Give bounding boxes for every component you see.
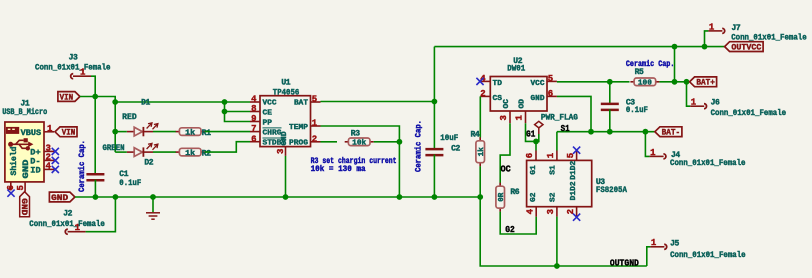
junction C3 top xyxy=(607,79,613,85)
svg-text:GND: GND xyxy=(281,131,289,145)
node G2 xyxy=(505,224,515,235)
note Ceramic Cap. (C2) xyxy=(414,120,423,172)
wire R4 to GND rail xyxy=(479,166,481,197)
wire U2 GND to S1 xyxy=(557,96,591,131)
wire J3 to VIN node xyxy=(91,76,95,96)
svg-text:Ceramic Cap.: Ceramic Cap. xyxy=(78,140,87,192)
svg-text:5: 5 xyxy=(312,95,317,105)
svg-text:10k = 130 ma: 10k = 130 ma xyxy=(311,165,366,174)
wire D1 anode xyxy=(115,131,127,133)
svg-text:VIN: VIN xyxy=(60,93,74,102)
wire U3 S2 down xyxy=(556,217,558,266)
svg-text:OC: OC xyxy=(503,99,511,109)
connector J7 Conn_01x01_Female xyxy=(708,22,806,42)
svg-text:Conn_01x01_Female: Conn_01x01_Female xyxy=(670,159,746,168)
junction C3 at S1 xyxy=(607,129,613,135)
capacitor C2 10uF xyxy=(425,134,460,155)
svg-text:J2: J2 xyxy=(63,210,72,219)
svg-text:1: 1 xyxy=(47,124,53,134)
svg-text:USB_B_Micro: USB_B_Micro xyxy=(2,108,47,117)
svg-text:8: 8 xyxy=(251,104,256,114)
junction C1 at rail xyxy=(93,194,99,200)
resistor R2 1k xyxy=(176,148,212,158)
wire U2 CS to R4 xyxy=(479,96,481,137)
svg-text:D1D2: D1D2 xyxy=(570,160,578,179)
svg-text:GND: GND xyxy=(531,95,545,103)
power label VIN (at J1 VBUS) xyxy=(55,127,77,138)
wire U1 BAT to C2 node xyxy=(321,101,435,103)
svg-text:Conn_01x01_Female: Conn_01x01_Female xyxy=(35,64,111,73)
svg-text:3: 3 xyxy=(276,149,286,154)
no-connect X on J1 pin D+ xyxy=(52,148,59,155)
wire GND rail xyxy=(75,196,480,198)
svg-text:S2: S2 xyxy=(550,192,558,202)
no-connect X on J1 pin D- xyxy=(52,157,59,164)
svg-text:R3: R3 xyxy=(351,130,360,139)
svg-text:6: 6 xyxy=(251,134,256,144)
wire S1 to U3 pin1 xyxy=(556,132,558,151)
wire BAT+ node to J6 xyxy=(687,82,691,106)
svg-text:1k: 1k xyxy=(185,150,195,158)
svg-text:BAT+: BAT+ xyxy=(696,79,715,88)
junction top rail at J7 xyxy=(702,44,708,50)
svg-text:1k: 1k xyxy=(478,147,486,157)
junction R4 at rail xyxy=(477,194,483,200)
svg-text:10uF: 10uF xyxy=(440,134,458,143)
junction OUTVCC riser xyxy=(672,79,678,85)
svg-text:J7: J7 xyxy=(732,24,741,33)
resistor R4 1k xyxy=(471,130,486,166)
wire VCC to C3 xyxy=(609,82,611,105)
junction TEMP/PROG xyxy=(397,139,403,145)
wire to J5 xyxy=(647,247,651,266)
power label BAT- xyxy=(655,127,682,138)
LED D2 (GREEN) xyxy=(103,143,158,167)
wire OUTGND rail xyxy=(480,197,647,266)
svg-text:2: 2 xyxy=(480,89,485,99)
svg-text:4: 4 xyxy=(525,208,535,214)
svg-text:G1: G1 xyxy=(530,165,538,175)
svg-text:4: 4 xyxy=(46,162,52,172)
wire D2 cathode to R2 xyxy=(153,151,176,153)
svg-text:2: 2 xyxy=(566,209,576,214)
svg-text:OC: OC xyxy=(501,164,512,175)
svg-text:4: 4 xyxy=(251,95,257,105)
wire riser to top rail xyxy=(674,47,676,82)
svg-text:J3: J3 xyxy=(69,54,78,63)
wire G1 to U3 pin6 xyxy=(535,141,537,150)
resistor R6 0R xyxy=(496,183,520,212)
svg-text:R2: R2 xyxy=(202,150,211,159)
svg-text:10k: 10k xyxy=(352,140,366,148)
junction at VIN/J3 xyxy=(92,94,98,100)
svg-text:OUTGND: OUTGND xyxy=(610,258,639,269)
svg-text:1k: 1k xyxy=(185,129,195,137)
svg-text:Conn_01x01_Female: Conn_01x01_Female xyxy=(711,109,787,118)
connector J6 Conn_01x01_Female xyxy=(690,98,786,118)
svg-text:R1: R1 xyxy=(202,129,211,138)
wire U2 OD to G1 xyxy=(526,123,537,141)
wire R1 to U1 CHRG xyxy=(205,131,250,133)
svg-text:DW01: DW01 xyxy=(507,65,525,74)
power label OUTVCC xyxy=(725,42,764,53)
svg-text:OUTVCC: OUTVCC xyxy=(731,44,761,53)
no-connect X on U2 TD xyxy=(476,78,483,85)
svg-text:FS8205A: FS8205A xyxy=(596,186,627,195)
node G1 xyxy=(526,128,535,139)
power label VIN (top) xyxy=(58,92,80,103)
junction J2 riser at rail xyxy=(113,194,119,200)
wire C2 to GND rail xyxy=(433,155,435,198)
no-connect X on U3 pin5 xyxy=(573,147,580,154)
svg-text:7: 7 xyxy=(251,124,256,134)
LED D1 (RED) xyxy=(122,98,158,136)
svg-text:R5: R5 xyxy=(635,68,644,77)
svg-text:3: 3 xyxy=(499,115,509,120)
svg-text:BAT-: BAT- xyxy=(662,129,681,138)
svg-text:GND: GND xyxy=(51,194,68,203)
svg-text:S1: S1 xyxy=(550,165,558,175)
svg-text:TEMP: TEMP xyxy=(289,124,308,132)
svg-text:GND: GND xyxy=(19,198,28,215)
wire LED anode drop xyxy=(114,102,116,152)
power label BAT+ xyxy=(690,77,717,88)
wire PROG node to GND rail xyxy=(398,142,400,197)
wire VIN label to junction xyxy=(80,97,115,103)
junction top rail at OUTVCC riser xyxy=(672,44,678,50)
svg-text:Ceramic Cap.: Ceramic Cap. xyxy=(626,60,675,69)
wire BAT riser to top rail xyxy=(433,47,435,102)
wire U1 TEMP xyxy=(321,126,400,142)
resistor R5 100 xyxy=(630,68,659,88)
node OUTGND xyxy=(610,258,639,269)
svg-text:D2: D2 xyxy=(144,159,153,168)
op-amp U1 TP4056 charger IC xyxy=(250,79,321,156)
resistor R1 1k xyxy=(176,128,212,138)
svg-text:VCC: VCC xyxy=(531,80,545,88)
svg-text:1: 1 xyxy=(312,119,318,129)
svg-text:PWR_FLAG: PWR_FLAG xyxy=(541,114,578,123)
connector J3 Conn_01x01_Female xyxy=(35,54,111,79)
junction at U1 CE strap xyxy=(222,109,228,115)
capacitor C3 0.1uF xyxy=(601,99,648,116)
svg-text:5: 5 xyxy=(548,74,553,84)
junction J6 drop xyxy=(684,79,690,85)
svg-text:R6: R6 xyxy=(510,188,519,197)
wire R2 to U1 STDBY xyxy=(205,142,250,152)
note Ceramic Cap. (C1) xyxy=(78,140,87,192)
transistor U2 DW01 protection IC xyxy=(480,57,557,123)
svg-text:6: 6 xyxy=(525,153,535,158)
power label GND (rail) xyxy=(49,192,75,203)
svg-text:CE: CE xyxy=(263,109,273,117)
svg-text:D1: D1 xyxy=(141,98,150,107)
svg-text:J5: J5 xyxy=(670,239,679,248)
wire J2 to GND rail xyxy=(86,197,116,232)
svg-text:R4: R4 xyxy=(471,130,480,139)
connector J4 Conn_01x01_Female xyxy=(650,148,746,168)
resistor R3 10k xyxy=(345,130,374,148)
note R3 set charging current xyxy=(311,157,397,174)
junction BAT/C2 xyxy=(432,99,438,105)
svg-text:1: 1 xyxy=(546,152,556,158)
svg-text:2: 2 xyxy=(312,134,317,144)
svg-text:G2: G2 xyxy=(505,224,515,235)
svg-text:3: 3 xyxy=(546,209,556,214)
svg-text:Ceramic Cap.: Ceramic Cap. xyxy=(414,120,423,172)
no-connect X on J1 pin ID xyxy=(52,166,59,173)
power label GND (below J1 pin 5) xyxy=(19,192,30,217)
wire D1 cathode to R1 xyxy=(153,131,176,133)
svg-text:1: 1 xyxy=(514,115,524,121)
connector J5 Conn_01x01_Female xyxy=(650,238,745,260)
svg-text:VIN: VIN xyxy=(62,129,76,138)
junction J4 drop xyxy=(643,129,649,135)
capacitor C1 0.1uF xyxy=(86,170,141,188)
connector J1 USB_B_Micro xyxy=(2,100,54,192)
wire R3 to GND riser xyxy=(374,141,400,143)
svg-text:ID: ID xyxy=(30,166,40,176)
svg-text:G2: G2 xyxy=(530,192,538,202)
svg-text:5: 5 xyxy=(16,185,26,190)
svg-text:J6: J6 xyxy=(711,98,720,107)
junction earth at rail xyxy=(150,194,156,200)
svg-text:VCC: VCC xyxy=(263,100,277,108)
no-connect X on U3 pin2 xyxy=(573,214,580,221)
junction at U1 VCC strap xyxy=(222,99,228,105)
junction U1 GND at rail xyxy=(283,194,289,200)
svg-text:Conn_01x01_Female: Conn_01x01_Female xyxy=(670,251,746,260)
wire R6 to G2 xyxy=(500,212,536,234)
wire VIN to U1 VCC xyxy=(115,101,250,103)
node OC xyxy=(501,164,512,175)
wire S1 rail xyxy=(557,131,655,133)
svg-text:S1: S1 xyxy=(561,123,570,134)
junction PROG riser at rail xyxy=(397,194,403,200)
wire to J4 xyxy=(645,132,649,157)
svg-text:GND: GND xyxy=(22,159,31,178)
wire VIN to C1 xyxy=(94,97,96,175)
svg-text:VBUS: VBUS xyxy=(21,128,41,138)
svg-text:C1: C1 xyxy=(119,170,128,179)
svg-text:CS: CS xyxy=(493,95,503,103)
power flag PWR_FLAG xyxy=(535,114,578,134)
svg-text:OD: OD xyxy=(519,99,527,109)
svg-text:TD: TD xyxy=(493,80,503,88)
no-connect X on J1 pin Shield xyxy=(7,190,14,197)
svg-text:Shield: Shield xyxy=(10,146,19,175)
wire C1 to GND rail xyxy=(94,180,96,197)
svg-text:BAT: BAT xyxy=(294,99,308,107)
junction G1 xyxy=(533,139,539,145)
wire U2 VCC to R5 xyxy=(557,81,630,83)
svg-text:C2: C2 xyxy=(451,145,460,154)
svg-text:RED: RED xyxy=(122,113,137,122)
svg-text:100: 100 xyxy=(638,80,652,88)
junction VIN corner xyxy=(112,99,118,105)
svg-text:9: 9 xyxy=(251,114,256,124)
transistor U3 FS8205A dual mosfet xyxy=(525,151,627,217)
wire U1 VCC-CE-PP strap xyxy=(225,102,251,122)
svg-text:PP: PP xyxy=(263,119,273,127)
junction at D1 anode xyxy=(112,129,118,135)
connector J2 Conn_01x01_Female xyxy=(29,210,105,235)
wire PWR_FLAG to G1 xyxy=(536,134,539,141)
wire U1 PROG to R3 xyxy=(321,141,338,143)
svg-text:0.1uF: 0.1uF xyxy=(626,106,648,115)
svg-text:6: 6 xyxy=(548,89,553,99)
junction U2 GND at S1 xyxy=(588,129,594,135)
svg-text:G1: G1 xyxy=(526,128,535,139)
wire U2 OC down xyxy=(500,123,510,186)
junction C2 at rail xyxy=(432,194,438,200)
svg-text:CHRG: CHRG xyxy=(263,130,282,138)
wire U1 GND to rail xyxy=(285,156,287,197)
wire top OUTVCC rail xyxy=(434,46,724,48)
wire R5 to BAT+ xyxy=(659,81,689,83)
ground symbol xyxy=(146,197,160,219)
svg-text:D1D2: D1D2 xyxy=(570,181,578,200)
junction S2 at OUTGND rail xyxy=(554,263,560,269)
svg-text:0R: 0R xyxy=(498,192,506,202)
wire BAT to C2 xyxy=(433,102,435,150)
wire C3 to S1 rail xyxy=(609,109,611,131)
svg-text:Conn_01x01_Female: Conn_01x01_Female xyxy=(29,220,105,229)
svg-text:U1: U1 xyxy=(281,79,290,88)
wire D2 anode xyxy=(115,151,127,153)
svg-text:PROG: PROG xyxy=(289,140,308,148)
node S1 xyxy=(561,123,570,134)
note Ceramic Cap. (C3) xyxy=(626,60,675,69)
wire to J7 xyxy=(705,31,709,47)
svg-text:0.1uF: 0.1uF xyxy=(119,179,141,188)
